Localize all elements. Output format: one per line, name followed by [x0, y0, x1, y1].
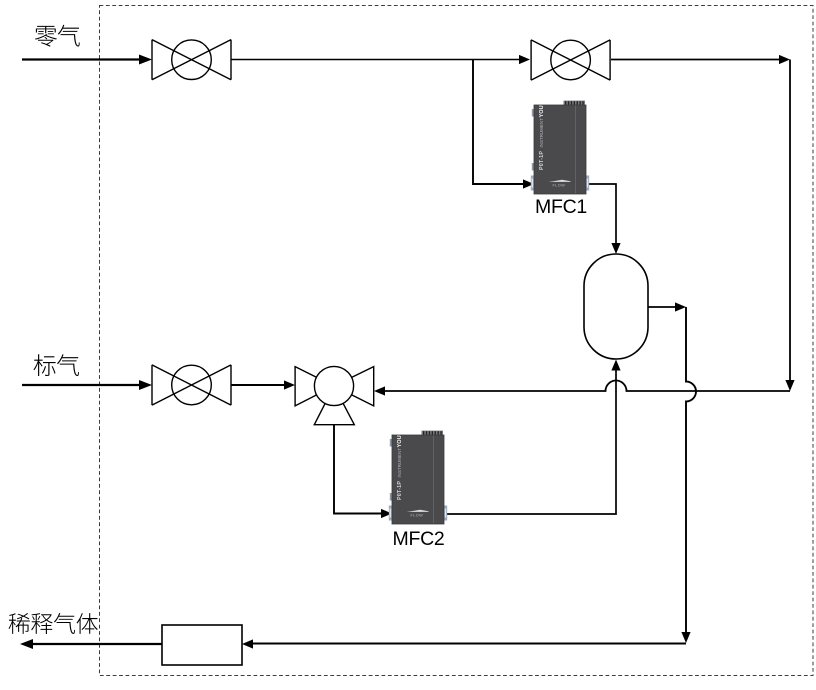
svg-text:P0T-1P: P0T-1P [539, 151, 545, 170]
svg-text:FLOW: FLOW [411, 513, 424, 517]
svg-text:YOU: YOU [397, 435, 403, 447]
svg-text:YOU: YOU [539, 105, 545, 117]
svg-text:MFC2: MFC2 [393, 528, 445, 550]
svg-text:INSTRUMENT: INSTRUMENT [397, 448, 402, 478]
svg-text:FLOW: FLOW [553, 183, 566, 187]
svg-text:INSTRUMENT: INSTRUMENT [539, 118, 544, 148]
svg-text:P0T-1P: P0T-1P [397, 481, 403, 500]
svg-text:MFC1: MFC1 [535, 196, 587, 218]
